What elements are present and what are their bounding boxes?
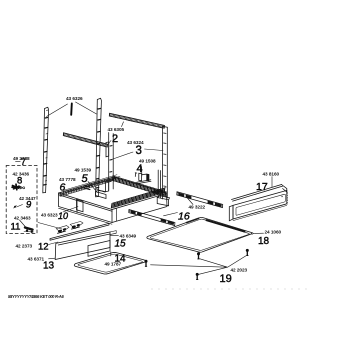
platform front face (59, 193, 113, 223)
svg-text:4: 4 (137, 163, 143, 175)
svg-text:2: 2 (112, 133, 118, 145)
pan 49 1787 (74, 252, 145, 274)
leader 2 (107, 122, 124, 146)
hardware icon 42 3436 (12, 184, 25, 190)
rail 43 6305 lower (63, 133, 107, 147)
post 43 6326 right (96, 98, 102, 197)
platform base assembly (59, 175, 168, 225)
rail 43 6305 upper (109, 113, 164, 128)
leader 12 (49, 242, 59, 245)
svg-text:58YYYYYYY74866 KET 000 R-A6: 58YYYYYYY74866 KET 000 R-A6 (8, 294, 64, 299)
callout 1 (70, 104, 73, 115)
top face inner lines (64, 175, 120, 192)
leader 1 (47, 102, 97, 117)
leader 5 (88, 182, 98, 193)
frame left post 43 6324 (106, 133, 114, 192)
small parts on platform (84, 186, 90, 190)
svg-text:12: 12 (38, 242, 49, 253)
svg-text:11: 11 (11, 222, 21, 233)
leaders 19 (151, 256, 247, 275)
right post foot (157, 198, 168, 206)
svg-text:24 1060: 24 1060 (265, 229, 282, 234)
frame right post 43 6324 (157, 126, 169, 206)
angle strip 42 2373 (50, 223, 109, 240)
platform front edge (59, 193, 113, 211)
leader 15 (110, 234, 118, 236)
svg-text:10: 10 (58, 211, 68, 221)
hatch band back (112, 176, 165, 196)
slide rail 49 3222 right (177, 192, 223, 208)
svg-text:3: 3 (136, 145, 142, 157)
leader 13 (49, 257, 56, 260)
leader 7 (16, 161, 21, 163)
svg-text:43 6305: 43 6305 (108, 127, 125, 132)
slide rail 49 3222 left (129, 210, 175, 226)
svg-text:49 1539: 49 1539 (75, 168, 92, 173)
bolts 42 2023 (145, 249, 249, 280)
leader 4 (141, 167, 143, 177)
svg-text:13: 13 (43, 261, 55, 272)
svg-text:43 6323: 43 6323 (41, 213, 58, 218)
svg-text:43 8160: 43 8160 (263, 171, 280, 176)
leader lines (16, 102, 273, 275)
svg-text:43 6371: 43 6371 (28, 257, 45, 262)
platform back edge (114, 177, 167, 193)
back panel 43 8160 (229, 185, 287, 221)
svg-text:49 3222: 49 3222 (189, 205, 206, 210)
bracket on platform (49 1539 target) (96, 192, 107, 199)
big callout digits (11, 104, 270, 286)
svg-text:14: 14 (115, 254, 127, 265)
leader 14 (110, 252, 112, 257)
hatch band right (111, 188, 164, 208)
hatch band front (60, 178, 111, 196)
panel 43 6349 (55, 231, 116, 260)
svg-text:8: 8 (17, 176, 22, 187)
screw 42 3447 (14, 205, 17, 208)
svg-text:6: 6 (60, 182, 66, 194)
svg-text:43 6326: 43 6326 (66, 96, 83, 101)
leader 10 (38, 207, 78, 230)
svg-text:17: 17 (256, 181, 268, 193)
svg-text:7: 7 (21, 157, 26, 167)
platform right face (112, 194, 167, 223)
leader 18 (254, 232, 264, 234)
svg-text:42 2023: 42 2023 (231, 267, 248, 272)
leader 9 (17, 205, 23, 208)
leader 11 (20, 220, 27, 228)
dashed hardware box (6, 166, 37, 234)
part number labels (13, 96, 282, 272)
platform top left edge (59, 177, 116, 194)
bracket 49 1508 (135, 173, 151, 184)
leader 6 (63, 190, 66, 193)
post 43 6326 left (43, 107, 49, 193)
leader 3 (112, 149, 164, 160)
leader 16 (164, 198, 194, 216)
caster 42 3463 (24, 228, 34, 234)
leader 17 (271, 177, 273, 188)
svg-text:5: 5 (82, 173, 89, 185)
svg-text:42 3463: 42 3463 (14, 216, 31, 221)
svg-text:9: 9 (26, 200, 32, 211)
svg-text:42 2373: 42 2373 (16, 244, 33, 249)
faint dotted line (152, 288, 307, 291)
svg-text:15: 15 (115, 239, 127, 250)
hardware cluster near 12 (56, 221, 83, 233)
sheet 24 1060 (147, 217, 252, 252)
svg-text:19: 19 (220, 273, 232, 285)
svg-text:18: 18 (258, 236, 270, 247)
svg-text:16: 16 (178, 211, 190, 223)
